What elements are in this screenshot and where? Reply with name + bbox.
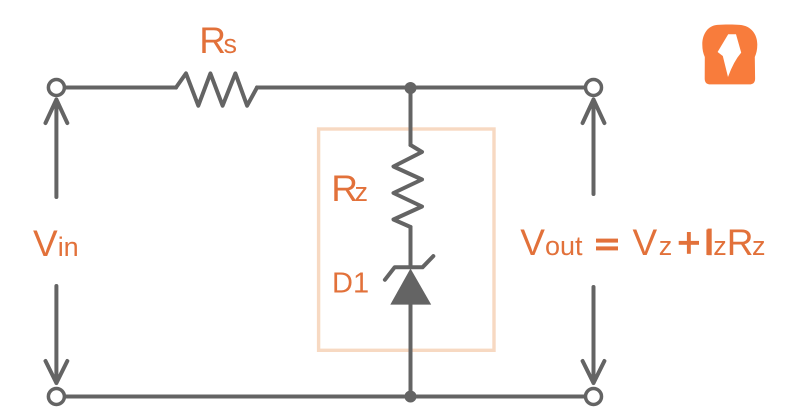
- logo CircuitBread toast: [702, 25, 757, 85]
- terminal bottom-right: [586, 389, 602, 405]
- terminal bottom-left: [48, 389, 64, 405]
- wire top-left (input to Rs): [66, 86, 176, 90]
- svg-text:Vin: Vin: [33, 223, 79, 264]
- terminal top-right: [586, 80, 602, 96]
- highlight box around Rz and D1: [319, 129, 494, 350]
- wire middle branch lower: [409, 304, 413, 397]
- svg-text:IzRz: IzRz: [703, 222, 766, 263]
- Vout arrow up: [583, 100, 605, 195]
- Vin arrow down: [46, 286, 68, 383]
- terminal top-left: [48, 80, 64, 96]
- svg-text:Vout: Vout: [520, 222, 583, 263]
- wire between Rz and D1: [409, 227, 413, 267]
- svg-text:Rs: Rs: [199, 20, 237, 61]
- Vin arrow up: [46, 100, 68, 198]
- node junction bottom: [405, 391, 417, 403]
- zener diode D1 cathode bar: [385, 256, 433, 280]
- wire middle branch upper: [409, 88, 413, 145]
- resistor Rz: [394, 145, 423, 227]
- wire bottom rail: [66, 395, 584, 399]
- node junction top: [405, 82, 417, 94]
- svg-text:D1: D1: [332, 268, 369, 300]
- Vout arrow down: [583, 287, 605, 383]
- svg-text:Vz: Vz: [633, 222, 673, 263]
- equals sign: [596, 239, 618, 243]
- zener diode D1 triangle: [390, 269, 431, 305]
- svg-text:Rz: Rz: [331, 168, 368, 209]
- logo lightning bolt: [718, 34, 742, 77]
- resistor Rs: [176, 73, 257, 105]
- plus sign: [679, 241, 699, 245]
- wire top-right (Rs to node A and output): [257, 86, 584, 90]
